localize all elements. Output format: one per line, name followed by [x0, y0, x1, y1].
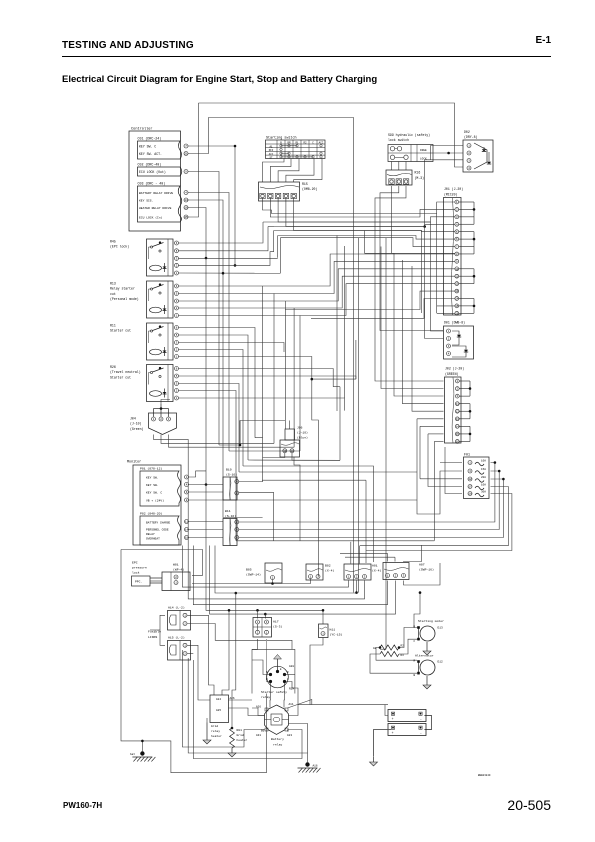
- wire: [312, 378, 356, 380]
- wire: [187, 624, 292, 650]
- pin 2 of A14: [183, 622, 187, 626]
- wire: [285, 674, 295, 676]
- svg-text:Controller: Controller: [131, 127, 153, 132]
- pin 2 of B02: [316, 575, 320, 579]
- svg-text:16: 16: [456, 441, 460, 444]
- wire: [179, 335, 249, 460]
- svg-text:BWE03249: BWE03249: [478, 774, 491, 777]
- svg-text:Battery: Battery: [271, 737, 284, 741]
- wire: [206, 258, 323, 624]
- svg-text:11: 11: [185, 521, 189, 524]
- wire: [273, 231, 275, 252]
- wire: [381, 247, 444, 389]
- pin 4 of D02: [467, 166, 471, 170]
- svg-text:ECU LOCK (Out): ECU LOCK (Out): [139, 170, 166, 174]
- pin 6 of P01: [185, 490, 189, 494]
- wire: [189, 537, 224, 539]
- pin 4 of J01: [455, 222, 459, 226]
- junction: [322, 609, 325, 612]
- wire: [433, 152, 463, 154]
- wire: [398, 162, 400, 171]
- junction: [447, 152, 450, 155]
- wire: [373, 550, 375, 563]
- pin 16 of J01: [455, 311, 459, 315]
- svg-text:J06: J06: [297, 426, 303, 429]
- svg-text:R13: R13: [110, 282, 116, 286]
- wire: [182, 546, 348, 588]
- pin 14 of P02: [185, 528, 189, 532]
- wire: [262, 222, 264, 242]
- wire: [179, 307, 295, 309]
- wire: [279, 238, 281, 274]
- fuse F01-12 20A: [468, 477, 472, 481]
- svg-text:14: 14: [184, 199, 188, 202]
- svg-text:R01: R01: [237, 729, 243, 732]
- pin 6 of B11: [235, 528, 239, 532]
- wire: [370, 654, 417, 673]
- pin 1 of B02: [309, 575, 313, 579]
- wire: [239, 463, 495, 523]
- pin 1 of A15: [183, 643, 187, 647]
- svg-text:21: 21: [184, 153, 188, 156]
- svg-text:PERSONEL CODE: PERSONEL CODE: [146, 528, 169, 531]
- wire: [160, 615, 165, 645]
- wire: [121, 550, 203, 576]
- svg-text:(WP-4): (WP-4): [173, 567, 184, 571]
- battery G2: [388, 724, 426, 736]
- svg-text:14: 14: [185, 529, 189, 532]
- pin 2 of A15: [183, 652, 187, 656]
- svg-text:(EPC lock): (EPC lock): [110, 245, 129, 249]
- wire: [179, 357, 312, 380]
- pin 3 of D02: [467, 159, 471, 163]
- wire: [356, 581, 358, 593]
- pin 4 of B10: [235, 480, 239, 484]
- pin 10 of J06: [283, 449, 287, 453]
- wire: [289, 421, 291, 430]
- svg-text:OVERHEAT: OVERHEAT: [146, 537, 160, 540]
- svg-text:bat: bat: [130, 752, 135, 756]
- pin 12 of J01: [455, 282, 459, 286]
- svg-text:-: -: [420, 718, 422, 722]
- wire: [365, 480, 367, 550]
- svg-text:12: 12: [468, 478, 472, 481]
- svg-text:18: 18: [185, 537, 189, 540]
- svg-text:20A: 20A: [481, 476, 486, 479]
- svg-text:(S-16): (S-16): [225, 514, 236, 518]
- wire: [239, 492, 274, 541]
- wire: [293, 308, 295, 447]
- pin 3 of R13: [175, 299, 179, 303]
- wire: [298, 704, 388, 706]
- pin 5 of R26: [175, 374, 179, 378]
- wire: [239, 471, 499, 530]
- wire: [210, 546, 396, 615]
- wire: [141, 741, 143, 751]
- junction: [355, 591, 358, 594]
- pin 14 of C03: [184, 198, 188, 202]
- wire: [386, 553, 388, 561]
- wire: [420, 425, 444, 427]
- wire: [193, 660, 302, 759]
- wire: [285, 269, 455, 301]
- wire: [366, 494, 512, 551]
- svg-text:KEY SW.: KEY SW.: [146, 484, 159, 487]
- wire: [350, 542, 352, 564]
- wire: [189, 491, 224, 493]
- wire: [294, 159, 322, 183]
- svg-text:relay: relay: [211, 729, 220, 733]
- svg-text:FREE: FREE: [420, 149, 427, 152]
- pin 14 of J02: [455, 424, 459, 428]
- svg-text:(Personal mode): (Personal mode): [110, 297, 139, 301]
- svg-text:S99 hydraulic (safety): S99 hydraulic (safety): [388, 133, 430, 137]
- svg-text:B02: B02: [325, 563, 331, 567]
- wire: [219, 421, 285, 446]
- svg-text:A23: A23: [287, 734, 292, 737]
- junction: [256, 609, 259, 612]
- svg-text:A15 (L-2): A15 (L-2): [168, 636, 185, 640]
- wire: [252, 639, 258, 694]
- svg-text:15: 15: [455, 305, 459, 308]
- wire: [355, 340, 357, 379]
- wire: [380, 186, 443, 331]
- wire: [340, 552, 387, 554]
- wire: [336, 236, 338, 412]
- wire: [179, 285, 263, 287]
- pin 1 of D01: [447, 329, 451, 333]
- svg-text:ECU LOCK (In): ECU LOCK (In): [139, 215, 163, 219]
- pin 1 of A07: [386, 574, 390, 578]
- svg-text:Fusible: Fusible: [148, 630, 161, 634]
- wire: [404, 545, 422, 562]
- wire: [154, 435, 189, 546]
- wire: [294, 230, 422, 232]
- wire: [179, 376, 356, 379]
- wire: [299, 316, 301, 452]
- svg-text:C01 (DRC-24): C01 (DRC-24): [138, 137, 162, 141]
- svg-text:A1: A1: [269, 146, 273, 149]
- wire: [385, 705, 388, 716]
- wire: [243, 466, 374, 550]
- svg-text:H11: H11: [330, 627, 336, 631]
- wire: [263, 159, 285, 183]
- svg-text:(M-3): (M-3): [415, 176, 425, 180]
- wire: [310, 638, 323, 705]
- pin 2 of R11: [175, 348, 179, 352]
- wire: [437, 305, 455, 307]
- svg-text:relay: relay: [261, 695, 270, 699]
- wire: [445, 447, 462, 494]
- pin 3 of R15: [275, 193, 280, 198]
- wire: [283, 682, 286, 708]
- pin 6 of R45: [175, 241, 179, 245]
- wire: [358, 238, 360, 593]
- svg-text:A8: A8: [373, 647, 377, 650]
- pin 8 of P01: [185, 498, 189, 502]
- pin 3 of R16: [403, 179, 408, 184]
- svg-text:RELAY: RELAY: [146, 533, 155, 536]
- svg-text:12: 12: [456, 410, 460, 413]
- wire: [278, 159, 299, 183]
- pin 2 of D02: [467, 151, 471, 155]
- svg-text:(Travel neutral): (Travel neutral): [110, 370, 141, 374]
- ground below starting motor: [426, 642, 428, 646]
- wire: [264, 614, 266, 618]
- svg-text:J01 (J-20): J01 (J-20): [444, 187, 463, 191]
- wire: [222, 610, 229, 695]
- pin 2 of D01: [447, 337, 451, 341]
- resistor R3: [380, 651, 399, 656]
- wire: [257, 624, 259, 630]
- wire: [436, 214, 438, 314]
- fuse F01-17 10A: [468, 485, 472, 489]
- svg-text:+: +: [392, 717, 394, 721]
- wire: [179, 241, 264, 244]
- wire: [189, 484, 224, 486]
- wire: [437, 312, 455, 314]
- wire: [277, 236, 279, 258]
- wire: [360, 487, 509, 546]
- svg-text:(OM8-20): (OM8-20): [302, 187, 317, 191]
- pin 3 of J02: [455, 394, 459, 398]
- wire: [179, 343, 285, 346]
- svg-text:+: +: [392, 731, 394, 735]
- svg-text:A17: A17: [273, 619, 279, 623]
- wire: [433, 442, 435, 541]
- svg-text:10: 10: [283, 450, 287, 453]
- fuse F01-18 30A: [468, 492, 472, 496]
- pin 2 of R16: [396, 179, 401, 184]
- wire: [278, 235, 345, 237]
- wire: [161, 435, 274, 444]
- svg-text:W01: W01: [173, 562, 179, 566]
- svg-text:-: -: [420, 732, 422, 736]
- relay R11 starter cut: [147, 323, 174, 360]
- wire: [311, 299, 455, 319]
- pin 5 of J01: [455, 230, 459, 234]
- junction: [235, 592, 238, 595]
- svg-text:A26: A26: [230, 697, 235, 700]
- wire: [179, 328, 256, 438]
- pin 6 of J01: [455, 237, 459, 241]
- wire: [289, 705, 299, 716]
- battery series link wire: [424, 716, 431, 730]
- svg-text:lock switch: lock switch: [388, 138, 409, 142]
- svg-text:Relay starter: Relay starter: [110, 287, 135, 291]
- pin 3 of R45: [175, 256, 179, 260]
- svg-text:25: 25: [184, 216, 188, 219]
- wire: [440, 462, 462, 464]
- wire: [188, 193, 229, 452]
- junction: [234, 264, 237, 267]
- svg-text:(X-4): (X-4): [325, 568, 334, 572]
- wire: [179, 369, 334, 387]
- svg-text:A07: A07: [419, 562, 425, 566]
- svg-text:(S-3): (S-3): [273, 625, 282, 629]
- wire: [391, 162, 393, 171]
- svg-text:Starter safety: Starter safety: [261, 690, 287, 694]
- wire: [248, 459, 340, 461]
- wire: [428, 433, 444, 435]
- svg-text:Starter cut: Starter cut: [110, 329, 131, 333]
- svg-text:OFF: OFF: [269, 149, 274, 152]
- wire: [274, 230, 294, 232]
- wire: [306, 291, 455, 309]
- pin 1 of R11: [175, 355, 179, 359]
- wire: [394, 253, 444, 396]
- pin 1 of A01: [347, 575, 351, 579]
- svg-text:11: 11: [456, 403, 460, 406]
- wire: [179, 350, 244, 467]
- wire: [263, 198, 456, 214]
- svg-text:VB + (24V): VB + (24V): [146, 498, 164, 502]
- svg-text:13: 13: [455, 290, 459, 293]
- pin 16 of J02: [455, 440, 459, 444]
- svg-text:BATTERY CHARGE: BATTERY CHARGE: [146, 521, 171, 524]
- svg-text:cut: cut: [110, 292, 116, 296]
- wire: [431, 146, 464, 161]
- fuse F01-3 15A: [468, 469, 472, 473]
- svg-text:18: 18: [468, 493, 472, 496]
- wire: [278, 198, 455, 222]
- wire: [179, 257, 278, 259]
- pin 12 of J02: [455, 409, 459, 413]
- pin 1 of J04: [152, 417, 156, 421]
- wire: [188, 208, 206, 258]
- wire: [365, 551, 367, 564]
- wire: [229, 450, 300, 452]
- wire: [150, 629, 160, 631]
- pin 4 of R15: [283, 193, 288, 198]
- wire: [431, 222, 444, 331]
- svg-text:16: 16: [184, 207, 188, 210]
- wire: [284, 310, 286, 430]
- svg-text:J04: J04: [130, 417, 136, 421]
- wire: [345, 236, 456, 240]
- wire: [414, 593, 420, 628]
- wire: [189, 471, 207, 477]
- wire: [252, 649, 295, 693]
- wire: [417, 471, 462, 514]
- pin 1 of R26: [175, 396, 179, 400]
- svg-text:(Green): (Green): [130, 427, 143, 431]
- wire: [206, 718, 208, 723]
- wire: [187, 653, 193, 655]
- pin 4 of A17: [256, 620, 260, 624]
- wire: [300, 540, 434, 542]
- svg-text:B10: B10: [226, 468, 232, 472]
- wire: [179, 315, 301, 317]
- pin 3 of R11: [175, 341, 179, 345]
- svg-text:D01 (DWB-8): D01 (DWB-8): [444, 321, 465, 325]
- pin 5 of R15: [291, 193, 296, 198]
- wire: [333, 386, 340, 388]
- wire: [179, 391, 237, 541]
- pin 1 of J01: [455, 200, 459, 204]
- wire: [399, 639, 420, 654]
- controller outer box: [129, 131, 181, 231]
- pin 10 of J01: [455, 267, 459, 271]
- svg-text:(YC-15): (YC-15): [330, 633, 343, 637]
- pin 4 of C03: [184, 191, 188, 195]
- pin 15 of J02: [455, 432, 459, 436]
- svg-text:R26: R26: [110, 365, 116, 369]
- svg-text:Grid: Grid: [211, 724, 218, 728]
- wire: [285, 221, 430, 223]
- pin 3 of R26: [175, 382, 179, 386]
- wire: [179, 272, 281, 274]
- wire: [187, 645, 210, 700]
- wire: [339, 387, 341, 461]
- wire: [270, 159, 291, 183]
- svg-text:R15: R15: [302, 182, 308, 186]
- wire: [399, 628, 420, 648]
- svg-text:PPC.: PPC.: [135, 580, 142, 583]
- wire: [257, 610, 259, 618]
- wire: [300, 284, 455, 316]
- wire: [286, 198, 455, 227]
- svg-text:B6: B6: [261, 730, 265, 733]
- pin 7 of C01: [184, 144, 188, 148]
- junction: [419, 591, 422, 594]
- wire: [294, 276, 455, 308]
- wire: [179, 384, 240, 473]
- pin 11 of J02: [455, 402, 459, 406]
- svg-text:14: 14: [455, 298, 459, 301]
- connector R16 (M-3): [386, 170, 412, 185]
- svg-text:A24: A24: [216, 698, 221, 701]
- wire: [188, 118, 354, 593]
- pin 2 of J02: [455, 387, 459, 391]
- pin 1 of D02: [467, 144, 471, 148]
- wire: [179, 300, 286, 302]
- svg-text:A25: A25: [216, 709, 221, 712]
- pin 3 of J01: [455, 215, 459, 219]
- junction: [502, 478, 505, 481]
- junction: [228, 609, 231, 612]
- pin 15 of J01: [455, 304, 459, 308]
- connector R15 (OM8-20): [259, 182, 300, 201]
- wire: [375, 186, 444, 381]
- wire: [294, 198, 455, 232]
- svg-text:(X-4): (X-4): [372, 568, 381, 572]
- pin 2 of R15: [268, 193, 273, 198]
- pin 4 of P01: [185, 483, 189, 487]
- pin 2 of A01: [355, 575, 359, 579]
- svg-text:R1M: R1M: [289, 688, 294, 691]
- wire: [239, 421, 241, 446]
- ground below R01: [231, 748, 233, 753]
- wire: [188, 200, 263, 518]
- wire: [179, 252, 274, 266]
- J02 right-side jumper wires: [459, 380, 470, 382]
- wire: [425, 227, 444, 339]
- svg-text:(S-16): (S-16): [226, 473, 237, 477]
- wire: [263, 254, 455, 286]
- wire: [427, 434, 429, 471]
- wire: [421, 231, 423, 314]
- fuse F01-1 10A: [468, 461, 472, 465]
- wire: [376, 648, 417, 661]
- monitor outer box: [133, 465, 181, 545]
- wire: [229, 699, 253, 701]
- resistor R01 grid heater: [230, 728, 235, 748]
- svg-text:10: 10: [455, 268, 459, 271]
- wire: [404, 563, 441, 585]
- wire: [255, 437, 263, 439]
- wire: [359, 238, 456, 247]
